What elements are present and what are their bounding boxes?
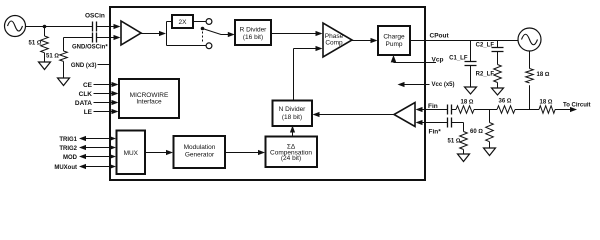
modulation generator box [174, 136, 226, 168]
svg-text:Fin: Fin [428, 103, 438, 110]
resistor 18 ohm (Fin series) [452, 106, 474, 114]
svg-text:MUX: MUX [124, 150, 139, 157]
svg-text:Comp: Comp [325, 40, 343, 47]
resistor 18 ohm (to circuit) [539, 106, 555, 114]
svg-text:GND/OSCin*: GND/OSCin* [72, 45, 108, 51]
op-amp Fin input buffer [394, 103, 415, 127]
wire TRIG2 [85, 147, 110, 149]
wire OSCin from source [26, 26, 93, 28]
svg-text:Charge: Charge [383, 34, 405, 41]
wire split junction [166, 22, 168, 46]
oscillator source [5, 16, 26, 37]
ground C1_LF [465, 87, 477, 94]
svg-text:51 Ω: 51 Ω [29, 41, 42, 47]
ground 60 ohm [484, 148, 496, 156]
svg-text:Generator: Generator [185, 152, 215, 159]
wire buffer to N divider [319, 114, 394, 116]
VCO source [518, 28, 541, 51]
svg-text:(18 bit): (18 bit) [282, 114, 302, 121]
sigma-delta compensation box [266, 137, 318, 168]
switch pole dot [201, 27, 205, 31]
capacitor Fin coupling [448, 105, 452, 115]
wire GND (x3) stub [98, 64, 111, 66]
wire GND/OSCin* [64, 37, 93, 39]
switch contact lower [206, 43, 212, 49]
wire buffer output [141, 33, 160, 35]
svg-text:C1_LF: C1_LF [449, 56, 468, 62]
ground 51 ohm Fin* [458, 154, 470, 162]
svg-text:(16 bit): (16 bit) [243, 34, 263, 41]
switch contact upper [206, 19, 212, 25]
resistor 51 ohm (OSCin* termination) [60, 38, 68, 79]
2X doubler box [172, 15, 193, 28]
svg-text:Pump: Pump [386, 41, 403, 48]
wire node to 18 ohm [515, 109, 539, 111]
svg-text:CE: CE [83, 82, 93, 89]
wire to circuit [555, 109, 571, 111]
resistor 51 ohm (OSCin termination) [41, 27, 49, 63]
svg-text:DATA: DATA [75, 100, 92, 107]
N Divider box [273, 101, 313, 127]
svg-text:To Circuit: To Circuit [563, 103, 591, 109]
wire LE [94, 111, 113, 113]
node junction at OSCin tap [43, 25, 47, 29]
wire Vcc arrow [404, 84, 430, 86]
ground (OSCin termination) [39, 62, 51, 70]
svg-text:18 Ω: 18 Ω [540, 99, 553, 105]
wire sigma-delta to N divider [292, 132, 294, 137]
wire arrow into osc buffer [114, 24, 121, 29]
svg-text:Modulation: Modulation [184, 144, 216, 151]
wire to 2X [167, 21, 173, 23]
wire Fin* into chip [422, 122, 447, 124]
wire Vcp supply to charge pump [394, 62, 437, 63]
switch arm [203, 29, 230, 35]
svg-text:18 Ω: 18 Ω [461, 99, 474, 105]
svg-text:MOD: MOD [63, 155, 78, 161]
svg-text:LE: LE [84, 109, 93, 116]
svg-text:Fin*: Fin* [429, 129, 442, 136]
wire MUX to mod gen [145, 152, 168, 154]
capacitor (OSCin coupling) [93, 22, 97, 32]
svg-text:GND (x3): GND (x3) [71, 63, 97, 69]
ground (OSCin* termination) [58, 78, 70, 86]
svg-text:36 Ω: 36 Ω [499, 98, 512, 104]
capacitor Fin* coupling [448, 118, 452, 128]
wire DATA [94, 102, 113, 104]
svg-text:(24 bit): (24 bit) [281, 155, 301, 162]
capacitor C1_LF [465, 41, 477, 88]
resistor R2_LF [494, 65, 502, 89]
wire OSCin* into chip [97, 37, 114, 39]
svg-text:CPout: CPout [430, 33, 450, 40]
wire R divider to phase comp [271, 33, 317, 35]
svg-text:18 Ω: 18 Ω [537, 72, 550, 78]
svg-text:2X: 2X [179, 19, 188, 26]
wire CE [94, 84, 113, 86]
svg-text:R Divider: R Divider [240, 27, 268, 34]
MUX box [117, 131, 146, 175]
wire OSCin into chip [97, 26, 114, 28]
svg-text:C2_LF: C2_LF [476, 43, 495, 49]
resistor 51 ohm (Fin* termination) [452, 123, 467, 155]
wire to 36 ohm [474, 109, 497, 111]
wire arrow into R divider [228, 32, 235, 37]
svg-text:Vcp: Vcp [432, 57, 444, 64]
wire 2X output [193, 21, 206, 23]
R Divider box [235, 20, 271, 45]
wire mod gen to sigma-delta [225, 152, 260, 154]
wire N divider to phase comp [294, 49, 317, 101]
svg-text:MUXout: MUXout [54, 165, 77, 171]
wire CLK [94, 93, 113, 95]
svg-text:51 Ω: 51 Ω [46, 54, 59, 60]
ground R2_LF [492, 88, 504, 95]
resistor 60 ohm [486, 110, 494, 149]
charge pump box [378, 26, 410, 55]
wire Fin into chip [422, 109, 447, 111]
wire bypass branch [167, 45, 207, 47]
svg-text:Interface: Interface [136, 99, 162, 106]
op-amp oscillator input buffer [121, 21, 141, 45]
resistor 36 ohm [497, 106, 515, 114]
svg-text:TRIG2: TRIG2 [59, 146, 77, 152]
svg-text:51 Ω: 51 Ω [448, 139, 461, 145]
svg-text:N Divider: N Divider [279, 106, 307, 113]
svg-text:TRIG1: TRIG1 [59, 137, 77, 143]
svg-text:CLK: CLK [79, 91, 93, 98]
svg-text:Vcc (x5): Vcc (x5) [432, 82, 455, 88]
svg-text:60 Ω: 60 Ω [470, 129, 483, 135]
chip outer box [110, 7, 425, 180]
switch alternate throw (dashed) [202, 32, 204, 43]
wire TRIG1 [85, 138, 110, 140]
wire MOD [85, 156, 110, 158]
resistor 18 ohm (VCO output, vertical) [526, 51, 534, 110]
MICROWIRE interface box [119, 79, 179, 118]
capacitor (OSCin* coupling) [93, 33, 97, 43]
wire CPout [410, 40, 518, 42]
wire arrow into osc buffer lower input [114, 35, 121, 40]
wire MUXout [85, 166, 110, 168]
wire phase comp to charge pump [352, 40, 372, 42]
svg-text:R2_LF: R2_LF [476, 72, 495, 78]
capacitor C2_LF [492, 41, 504, 65]
svg-text:OSCin: OSCin [85, 13, 105, 20]
phase comparator [323, 23, 352, 57]
